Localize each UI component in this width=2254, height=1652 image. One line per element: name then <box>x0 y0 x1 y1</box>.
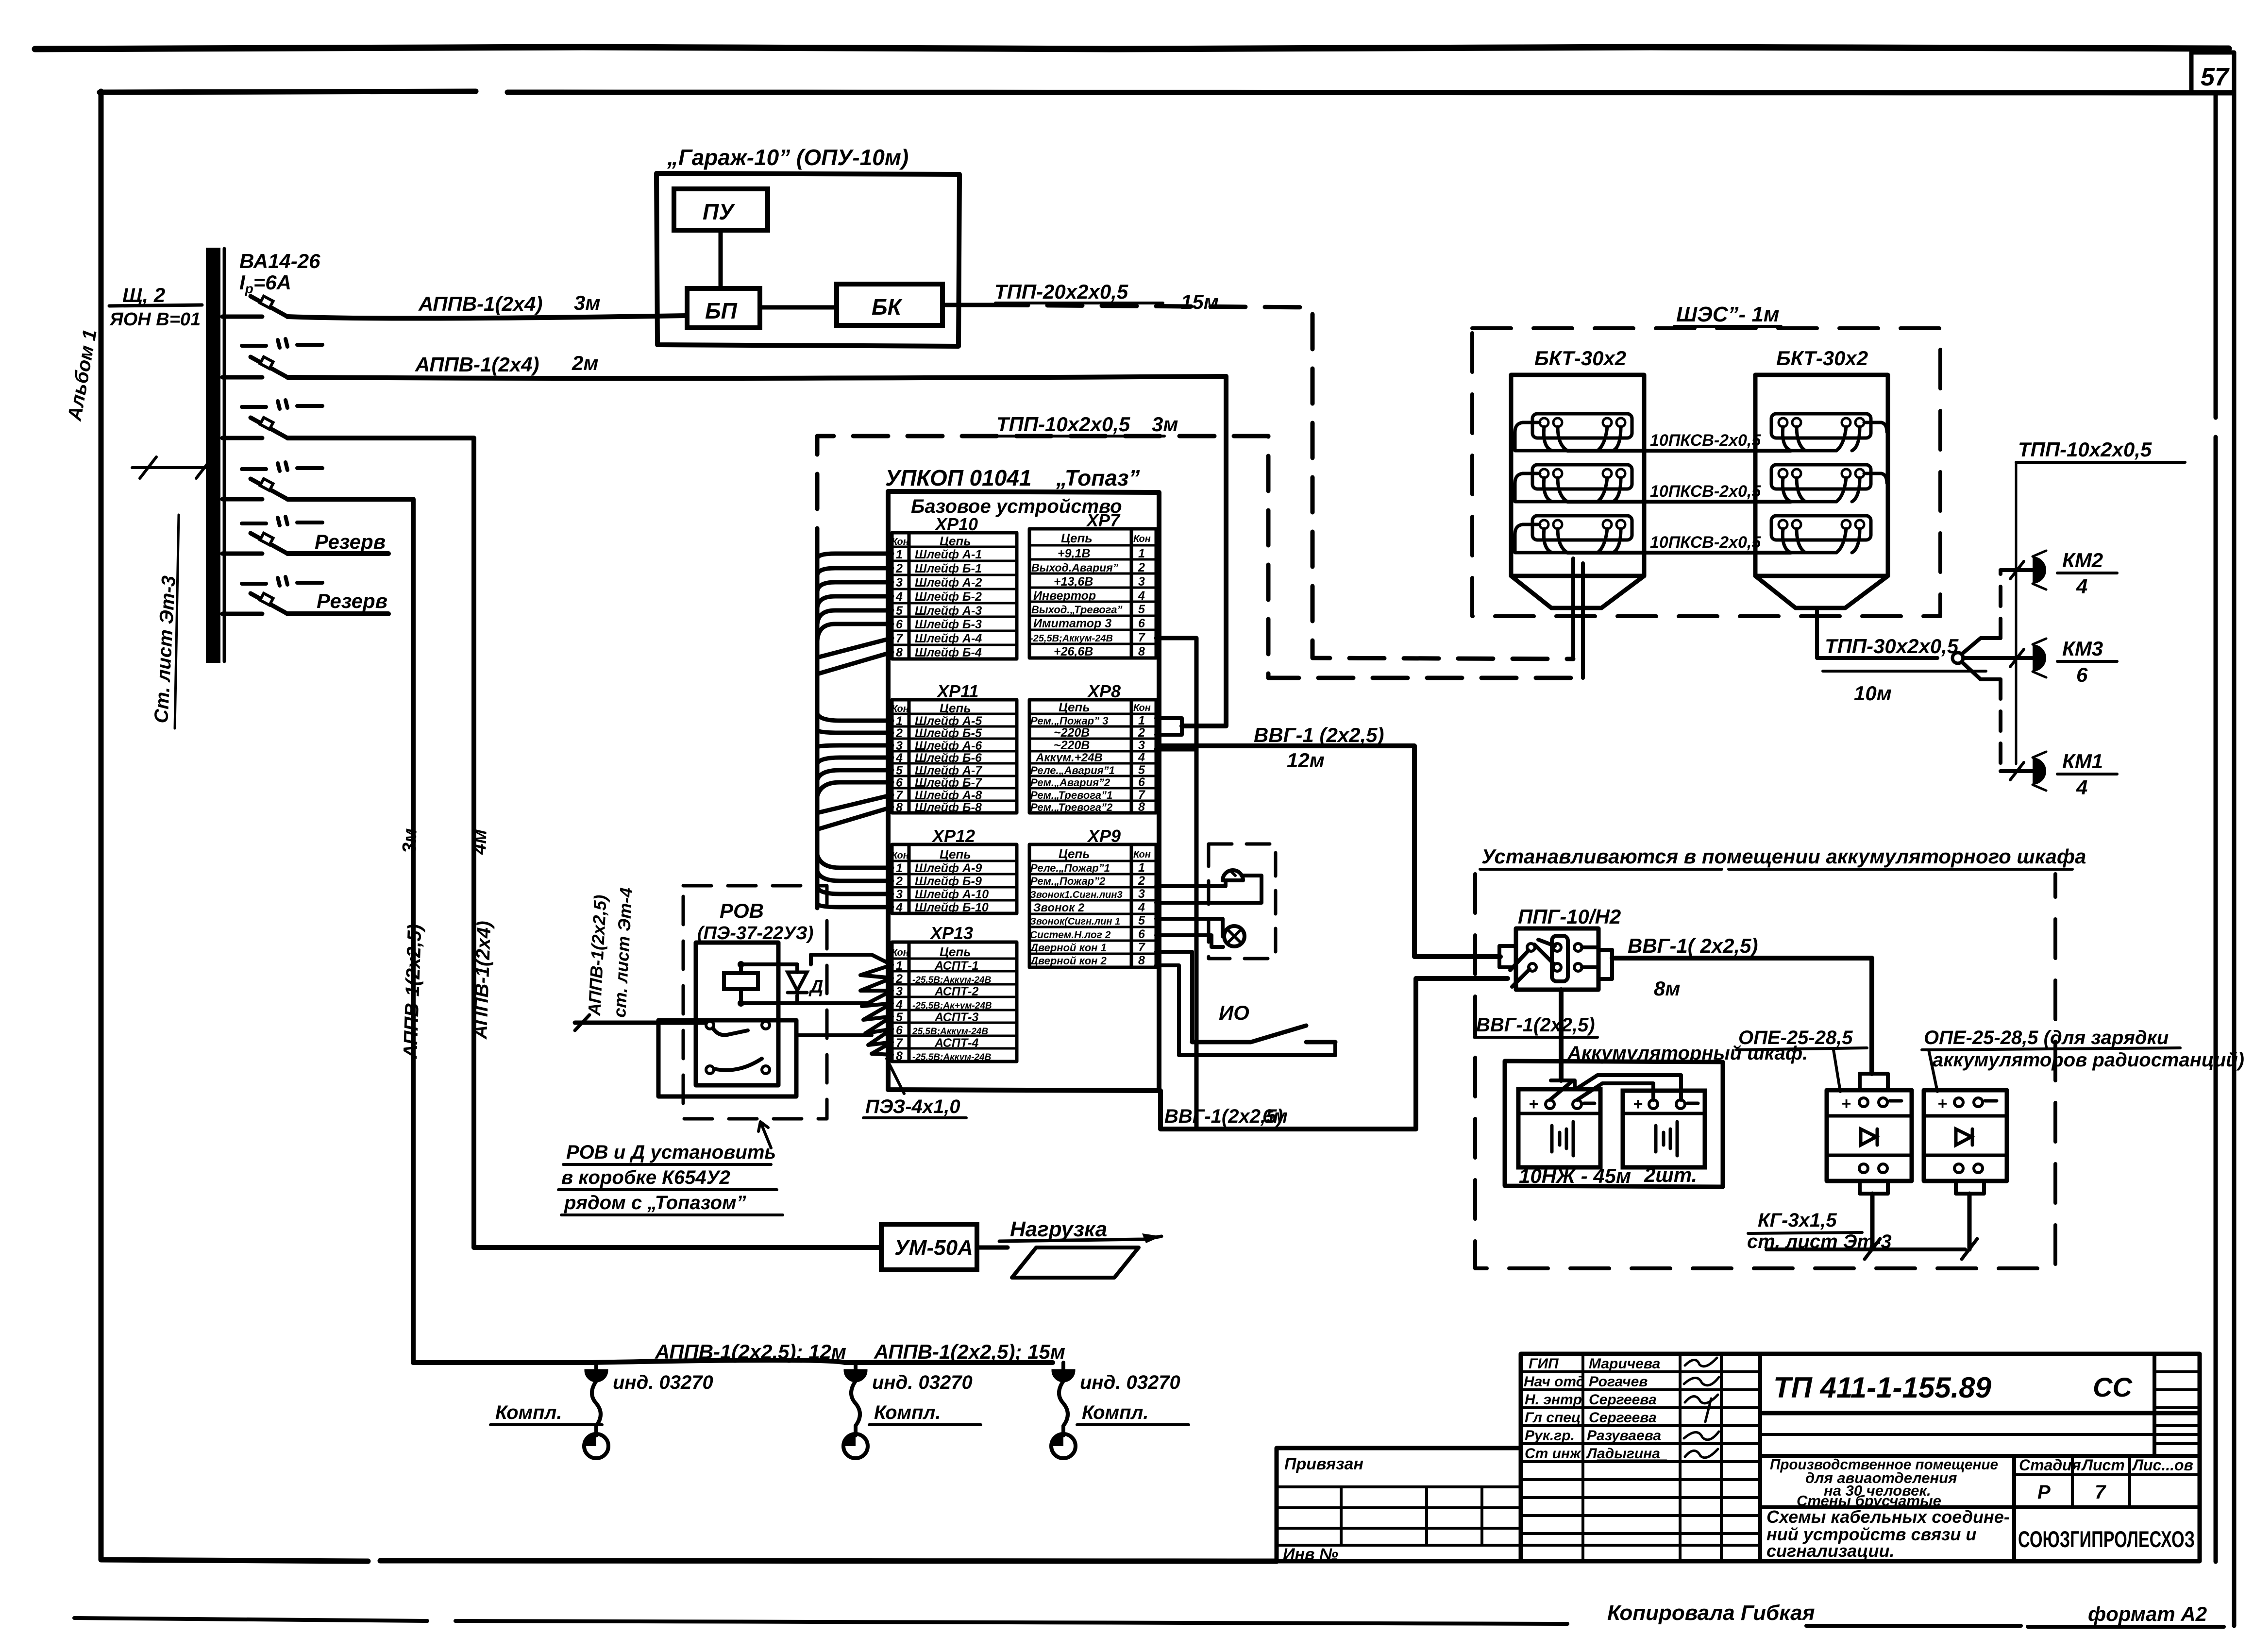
loop wire fan into ХР12 <box>817 855 892 907</box>
svg-text:Шлейф А-1: Шлейф А-1 <box>915 548 982 561</box>
organization cell СОЮЗГИПРОЛЕСХОЗ <box>2018 1526 2195 1552</box>
busbar Щ2 <box>206 248 224 663</box>
busbar label Щ,2 / ЯОН В=01 <box>109 284 202 330</box>
svg-text:ВВГ-1(2х2,5): ВВГ-1(2х2,5) <box>1476 1014 1595 1036</box>
svg-text:РОВ: РОВ <box>720 899 764 922</box>
breaker switch branch 5 (Резерв) <box>222 530 388 554</box>
svg-text:Гл спец: Гл спец <box>1525 1410 1581 1426</box>
svg-text:Рогачев: Рогачев <box>1589 1374 1648 1390</box>
loop wire fan into ХР10 <box>817 554 892 908</box>
svg-text:КМ3: КМ3 <box>2062 637 2103 660</box>
svg-text:25,5В;Аккум-24В: 25,5В;Аккум-24В <box>912 1027 988 1037</box>
door contact ИО <box>1192 1001 1335 1042</box>
wires ХР9 pins 7-8 to ИО <box>1156 952 1335 1055</box>
svg-text:Кон: Кон <box>892 537 909 547</box>
svg-text:6: 6 <box>1138 927 1145 941</box>
svg-text:АСПТ-4: АСПТ-4 <box>934 1036 978 1050</box>
svg-text:4: 4 <box>895 590 903 604</box>
connector ХР13 <box>892 923 1017 1063</box>
signature row Рук.гр. Разуваева <box>1525 1428 1719 1444</box>
branch to КМ3 <box>1963 649 2033 667</box>
rectifier ОПЕ-25-28,5 #2 <box>1924 1090 2007 1249</box>
svg-text:6: 6 <box>2076 663 2088 686</box>
svg-text:3м: 3м <box>1152 413 1178 436</box>
cable ВВГ-1(2х2,5) 12м to ППГ <box>1161 724 1500 957</box>
terminal strip left-3 <box>1515 516 1632 553</box>
svg-text:Шлейф Б-1: Шлейф Б-1 <box>915 562 982 575</box>
battery cabinet <box>1505 1061 1723 1187</box>
svg-text:Сергеева: Сергеева <box>1589 1410 1657 1426</box>
svg-text:Шлейф А-8: Шлейф А-8 <box>915 789 982 802</box>
breaker switch branch 4 <box>222 479 287 499</box>
svg-text:Д: Д <box>808 977 823 997</box>
svg-text:Шлейф А-4: Шлейф А-4 <box>915 632 982 645</box>
svg-text:-25,5В;Аккум-24В: -25,5В;Аккум-24В <box>912 975 992 985</box>
svg-text:Шлейф Б-4: Шлейф Б-4 <box>915 646 982 659</box>
svg-text:10ПКСВ-2х0,5: 10ПКСВ-2х0,5 <box>1650 482 1761 501</box>
wire ХР7 pin7 -25,5В drop <box>1156 638 1196 1129</box>
svg-text:15м: 15м <box>1181 290 1219 313</box>
svg-text:Выход.„Тревога”: Выход.„Тревога” <box>1031 604 1122 616</box>
svg-text:7: 7 <box>2095 1482 2106 1503</box>
svg-text:ТПП-30х2х0,5: ТПП-30х2х0,5 <box>1825 635 1959 657</box>
svg-text:ТПП-10х2х0,5: ТПП-10х2х0,5 <box>996 413 1130 436</box>
svg-text:3: 3 <box>896 739 903 753</box>
svg-text:сигнализации.: сигнализации. <box>1766 1541 1894 1561</box>
svg-text:Цепь: Цепь <box>940 847 971 861</box>
wires ХР9 pins 3-6 to signal devices <box>1156 876 1262 947</box>
svg-text:1: 1 <box>1138 714 1145 727</box>
svg-text:Рем.„Пожар”2: Рем.„Пожар”2 <box>1030 875 1106 887</box>
svg-text:+26,6В: +26,6В <box>1054 645 1093 658</box>
wire right funnel to ТПП-30 <box>1817 608 1937 658</box>
svg-text:АСПТ-3: АСПТ-3 <box>934 1011 978 1024</box>
relay coil K1 <box>724 964 758 1003</box>
svg-text:формат А2: формат А2 <box>2088 1602 2207 1625</box>
cable ВВГ-1(2х2,5) ППГ to battery <box>1474 990 1598 1080</box>
cable ТПП-20х2х0,5 15м (dashed) from БК <box>942 280 1573 659</box>
svg-text:Щ, 2: Щ, 2 <box>122 284 165 306</box>
rectifier ОПЕ-25-28,5 #1 <box>1827 1074 1912 1249</box>
svg-text:Реле.„Авария”1: Реле.„Авария”1 <box>1030 764 1115 776</box>
svg-text:3: 3 <box>1138 575 1145 589</box>
svg-text:8: 8 <box>896 646 903 659</box>
svg-text:1: 1 <box>896 959 903 973</box>
svg-text:рядом с „Топазом”: рядом с „Топазом” <box>564 1192 746 1214</box>
svg-text:Цепь: Цепь <box>940 534 971 548</box>
dimension leader to busbar (см. лист Эт-3) <box>132 457 213 478</box>
speaker КМ1 <box>2033 750 2117 799</box>
svg-text:3м: 3м <box>574 291 600 314</box>
title block outline <box>1277 1354 2200 1561</box>
cable ВВГ-1(2х2,5) 6м to ППГ <box>1161 978 1508 1129</box>
svg-text:БКТ-30х2: БКТ-30х2 <box>1776 347 1868 370</box>
block БК <box>837 284 942 325</box>
wire 220V riser to ХР8 pins 2-3 <box>1182 376 1226 726</box>
svg-text:Рук.гр.: Рук.гр. <box>1525 1428 1575 1444</box>
svg-text:АСПТ-2: АСПТ-2 <box>934 985 978 998</box>
svg-text:Шлейф А-6: Шлейф А-6 <box>915 739 982 753</box>
svg-text:6: 6 <box>1138 617 1145 630</box>
svg-text:10ПКСВ-2х0,5: 10ПКСВ-2х0,5 <box>1650 533 1761 552</box>
enclosure ШЭС dashed <box>1472 328 1940 616</box>
wire ПУ-БП <box>719 230 723 288</box>
svg-text:ИО: ИО <box>1219 1001 1249 1024</box>
svg-text:5: 5 <box>896 604 903 618</box>
empty revision strip <box>1760 1433 2200 1436</box>
jumper cable 10ПКСВ-2х0,5 row2 <box>1567 482 1791 502</box>
object name cell <box>1760 1456 2200 1561</box>
svg-text:2: 2 <box>895 972 903 986</box>
relay contact lower <box>706 1059 770 1074</box>
breaker switch branch 3 <box>222 418 287 438</box>
svg-text:ТПП-10х2х0,5: ТПП-10х2х0,5 <box>2018 438 2152 461</box>
svg-text:5: 5 <box>1138 603 1145 616</box>
svg-text:10м: 10м <box>1854 682 1892 705</box>
cable label ТПП-10х2х0,5 (speaker riser) <box>2016 438 2185 462</box>
svg-text:Кон: Кон <box>1133 534 1151 544</box>
signal box (bell+lamp) dashed <box>1209 844 1276 959</box>
label ОПЕ-25-28,5 (для зарядки аккумуляторов радиостанций) <box>1922 1027 2244 1092</box>
svg-text:Кон: Кон <box>892 947 909 958</box>
drawing frame left <box>101 91 1277 1561</box>
svg-text:Шлейф Б-2: Шлейф Б-2 <box>915 590 982 604</box>
svg-text:Шлейф Б-8: Шлейф Б-8 <box>915 801 982 814</box>
svg-text:7: 7 <box>896 1036 903 1050</box>
svg-text:4: 4 <box>895 998 903 1011</box>
svg-text:4: 4 <box>2076 776 2087 799</box>
svg-text:инд. 03270: инд. 03270 <box>1080 1372 1180 1393</box>
svg-text:7: 7 <box>1138 631 1145 644</box>
svg-text:Рем.„Тревога”1: Рем.„Тревога”1 <box>1030 789 1112 801</box>
svg-text:Цепь: Цепь <box>1061 531 1093 545</box>
branch to КМ2 <box>1962 561 2033 654</box>
svg-text:4: 4 <box>1138 751 1145 764</box>
enclosure РОВ dashed <box>683 886 827 1119</box>
svg-text:КГ-3х1,5: КГ-3х1,5 <box>1758 1210 1837 1231</box>
luminaire 3 инд.03270 <box>1051 1363 1189 1458</box>
svg-text:1: 1 <box>1138 861 1145 875</box>
svg-text:6м: 6м <box>1262 1106 1288 1127</box>
jumper cable 10ПКСВ-2х0,5 row1 <box>1567 431 1791 451</box>
svg-text:8: 8 <box>1138 954 1145 967</box>
wire ХР8 pin4 Аккум+24В stub <box>1156 747 1196 752</box>
svg-text:8: 8 <box>896 801 903 814</box>
breaker switch QF1 branch 1 <box>222 296 287 317</box>
label 10НЖ-45м 2шт <box>1519 1163 1697 1187</box>
svg-text:Разуваева: Разуваева <box>1587 1428 1661 1444</box>
connector ХР11 <box>892 681 1017 814</box>
speaker КМ3 <box>2033 637 2117 686</box>
svg-text:Сергеева: Сергеева <box>1589 1392 1657 1408</box>
svg-text:8м: 8м <box>1654 977 1680 1000</box>
bell HA1 <box>1223 870 1243 880</box>
svg-text:Аккум.+24В: Аккум.+24В <box>1035 751 1103 764</box>
svg-text:инд. 03270: инд. 03270 <box>613 1372 713 1393</box>
breaker switch branch 6 (Резерв) <box>222 590 388 614</box>
wire branch1 АППВ-1(2х4) 3м to БП <box>287 291 687 319</box>
svg-text:2шт.: 2шт. <box>1644 1163 1697 1186</box>
sheet top border line <box>35 47 2229 49</box>
luminaire 1 инд.03270 <box>490 1363 713 1458</box>
drawing frame top <box>100 91 2234 93</box>
svg-text:Реле.„Пожар”1: Реле.„Пожар”1 <box>1030 862 1110 874</box>
svg-text:Привязан: Привязан <box>1284 1455 1363 1473</box>
svg-text:ШЭС”- 1м: ШЭС”- 1м <box>1676 303 1779 326</box>
battery room enclosure dashed <box>1475 874 2055 1268</box>
svg-text:3: 3 <box>1138 887 1145 901</box>
relay contact upper <box>706 1021 770 1035</box>
svg-text:Резерв: Резерв <box>315 530 386 553</box>
svg-text:1: 1 <box>896 861 903 875</box>
svg-text:Резерв: Резерв <box>317 590 387 612</box>
svg-text:Шлейф А-3: Шлейф А-3 <box>915 604 982 618</box>
svg-text:7: 7 <box>896 789 903 802</box>
signature row ГИП Маричева <box>1529 1356 1717 1372</box>
svg-text:Шлейф Б-5: Шлейф Б-5 <box>915 726 982 740</box>
terminal strip right-1 <box>1771 414 1887 451</box>
ditto mark branch 4 <box>242 462 322 471</box>
svg-text:АППВ-1(2х4): АППВ-1(2х4) <box>418 292 542 315</box>
svg-text:Шлейф А-10: Шлейф А-10 <box>915 888 989 901</box>
svg-text:Систем.Н.лог 2: Систем.Н.лог 2 <box>1030 929 1111 941</box>
label БКТ-30х2 left <box>1534 347 1626 370</box>
svg-text:3: 3 <box>896 576 903 590</box>
label Аккумуляторный шкаф <box>1567 1043 1808 1064</box>
wire bundle zigzag to ХР13 pins <box>860 955 892 1055</box>
svg-text:Шлейф Б-9: Шлейф Б-9 <box>915 875 982 888</box>
svg-text:Шлейф А-9: Шлейф А-9 <box>915 861 982 875</box>
svg-text:ВА14-26: ВА14-26 <box>239 250 320 272</box>
svg-text:7: 7 <box>896 632 903 645</box>
svg-text:Кон: Кон <box>1133 849 1151 860</box>
junction node <box>1952 653 1963 663</box>
terminal bracket ХР8 pins 2-3 <box>1156 718 1182 735</box>
loop wire fan into ХР11 <box>817 714 892 829</box>
svg-text:8: 8 <box>1138 645 1145 658</box>
svg-text:2: 2 <box>1138 726 1145 740</box>
svg-text:АСПТ-1: АСПТ-1 <box>934 959 978 973</box>
battery GB1 10НЖ-45м <box>1518 1089 1600 1167</box>
document number cell ТП 411-1-155.89 СС <box>1760 1354 2200 1456</box>
connector ХР9 <box>1029 826 1156 967</box>
cable ВВГ-1(2х2,5) 8м from ППГ to ОПЕ <box>1612 934 1872 1074</box>
signature row Н. энтр Сергеева <box>1525 1392 1718 1408</box>
svg-text:2м: 2м <box>572 352 598 374</box>
svg-text:АППВ-1(2х2,5); 15м: АППВ-1(2х2,5); 15м <box>874 1340 1065 1363</box>
sheet number box 57 <box>2191 52 2234 92</box>
svg-text:5: 5 <box>1138 914 1145 927</box>
svg-text:ЯОН В=01: ЯОН В=01 <box>109 309 201 330</box>
svg-text:АППВ-1(2х2,5); 12м: АППВ-1(2х2,5); 12м <box>655 1340 846 1363</box>
svg-text:57: 57 <box>2201 63 2230 91</box>
block ПУ <box>674 189 768 230</box>
wire to УМ-50А <box>474 1245 881 1250</box>
svg-text:ВВГ-1 (2х2,5): ВВГ-1 (2х2,5) <box>1254 724 1384 746</box>
svg-text:Цепь: Цепь <box>1059 700 1090 714</box>
svg-text:БК: БК <box>872 294 903 320</box>
svg-text:СОЮЗГИПРОЛЕСХОЗ: СОЮЗГИПРОЛЕСХОЗ <box>2018 1526 2195 1552</box>
svg-text:инд. 03270: инд. 03270 <box>872 1372 973 1393</box>
svg-text:Схемы кабельных соедине-: Схемы кабельных соедине- <box>1766 1507 2010 1527</box>
battery interconnect wires <box>1550 1075 1681 1100</box>
terminal strip right-2 <box>1771 465 1887 502</box>
svg-text:Компл.: Компл. <box>1082 1402 1149 1423</box>
svg-text:КМ1: КМ1 <box>2062 750 2103 773</box>
svg-text:Лист: Лист <box>2081 1456 2125 1474</box>
svg-text:Звонок 2: Звонок 2 <box>1033 901 1085 914</box>
svg-text:Рем.„Пожар” 3: Рем.„Пожар” 3 <box>1030 715 1108 727</box>
wire feed АППВ-1(2х2,5) into РОВ <box>575 887 706 1030</box>
svg-text:2: 2 <box>895 875 903 888</box>
copied-by note Копировала <box>1607 1601 1815 1625</box>
cable label ПЭЗ-4х1,0 <box>863 1059 966 1118</box>
svg-text:3: 3 <box>1138 739 1145 752</box>
ditto mark branch 2 <box>242 339 322 348</box>
svg-text:1: 1 <box>1138 547 1145 560</box>
svg-text:Цепь: Цепь <box>1059 846 1090 861</box>
svg-text:Р: Р <box>2037 1482 2051 1503</box>
svg-text:Компл.: Компл. <box>495 1402 562 1423</box>
svg-text:+9,1В: +9,1В <box>1058 547 1090 560</box>
svg-text:ХР13: ХР13 <box>929 923 973 943</box>
svg-text:Шлейф А-7: Шлейф А-7 <box>915 764 982 777</box>
svg-text:5: 5 <box>1138 763 1145 777</box>
heading Устанавливаются в помещении аккумуляторного шкафа <box>1480 845 2086 869</box>
svg-text:+: + <box>1633 1095 1643 1113</box>
svg-text:СС: СС <box>2093 1372 2133 1402</box>
svg-text:„Гараж-10” (ОПУ-10м): „Гараж-10” (ОПУ-10м) <box>667 145 908 170</box>
stage/sheet header cells <box>2014 1456 2200 1507</box>
ditto mark branch 3 <box>242 400 322 409</box>
svg-text:-25,5В;Аккум-24В: -25,5В;Аккум-24В <box>1030 633 1113 644</box>
load symbol parallelogram <box>1012 1247 1139 1278</box>
speaker КМ2 <box>2033 549 2117 598</box>
svg-text:Стадия: Стадия <box>2019 1456 2081 1474</box>
svg-text:8: 8 <box>896 1049 903 1063</box>
svg-text:Инвертор: Инвертор <box>1033 589 1096 603</box>
svg-text:Дверной кон 2: Дверной кон 2 <box>1029 955 1107 967</box>
svg-text:6: 6 <box>896 1024 903 1037</box>
svg-text:3: 3 <box>896 985 903 998</box>
svg-text:+: + <box>1529 1095 1538 1113</box>
label ППГ-10/Н2 <box>1518 905 1621 928</box>
branch to КМ1 <box>1962 662 2033 780</box>
svg-text:3: 3 <box>896 888 903 901</box>
svg-text:Рем.„Авария”2: Рем.„Авария”2 <box>1030 776 1110 789</box>
svg-text:4: 4 <box>2076 575 2087 598</box>
svg-text:2: 2 <box>1138 561 1145 574</box>
svg-text:Шлейф А-5: Шлейф А-5 <box>915 714 982 728</box>
label ОПЕ-25-28,5 <box>1736 1027 1867 1092</box>
svg-text:4: 4 <box>895 751 903 765</box>
svg-text:5: 5 <box>896 764 903 777</box>
svg-text:КМ2: КМ2 <box>2062 549 2103 572</box>
svg-text:Шлейф Б-10: Шлейф Б-10 <box>915 901 989 914</box>
cable label АППВ-1(2х2,5);12м <box>655 1340 846 1363</box>
svg-text:ППГ-10/Н2: ППГ-10/Н2 <box>1518 905 1621 928</box>
svg-text:Дверной кон 1: Дверной кон 1 <box>1029 942 1107 954</box>
ditto mark branch 6 <box>242 577 322 586</box>
svg-text:1: 1 <box>896 548 903 561</box>
format note формат А2 <box>2088 1602 2207 1625</box>
lamp HL1 <box>1224 926 1245 946</box>
svg-text:РОВ и Д установить: РОВ и Д установить <box>566 1142 776 1163</box>
battery GB2 10НЖ-45м <box>1623 1091 1705 1167</box>
svg-text:5: 5 <box>896 1011 903 1024</box>
svg-text:Компл.: Компл. <box>874 1402 941 1423</box>
wires left funnel to incoming cables <box>1573 558 1583 678</box>
svg-text:АППВ-1(2х4): АППВ-1(2х4) <box>415 353 539 376</box>
contact unit box <box>658 1020 796 1096</box>
block БП <box>687 288 760 328</box>
svg-text:10НЖ - 45м: 10НЖ - 45м <box>1519 1164 1631 1187</box>
svg-text:Инв №: Инв № <box>1283 1545 1338 1564</box>
label Ст.лист Эт-3 (vertical) <box>151 515 180 728</box>
cable label ТПП-30х2х0,5 / 10м <box>1823 635 1986 705</box>
svg-text:Шлейф А-2: Шлейф А-2 <box>915 576 982 590</box>
svg-text:Маричева: Маричева <box>1589 1356 1660 1372</box>
svg-text:4: 4 <box>895 901 903 914</box>
svg-text:12м: 12м <box>1287 749 1325 772</box>
svg-text:аккумуляторов радиостанций): аккумуляторов радиостанций) <box>1933 1049 2244 1071</box>
svg-text:Звонок1.Сигн.лин3: Звонок1.Сигн.лин3 <box>1030 890 1123 900</box>
title УПКОП 01041 „Топаз" <box>885 465 1140 490</box>
note РОВ и Д установить в коробке К654У2 рядом с „Топазом" <box>558 1122 783 1215</box>
svg-text:10ПКСВ-2х0,5: 10ПКСВ-2х0,5 <box>1650 431 1761 450</box>
svg-text:4м: 4м <box>469 829 491 855</box>
svg-text:Цепь: Цепь <box>940 701 971 715</box>
terminal box БКТ left <box>1511 375 1644 608</box>
svg-text:ТПП-20х2х0,5: ТПП-20х2х0,5 <box>994 280 1128 303</box>
svg-text:Устанавливаются в помещении ак: Устанавливаются в помещении аккумуляторн… <box>1481 845 2086 868</box>
svg-text:Копировала Гибкая: Копировала Гибкая <box>1607 1601 1815 1625</box>
svg-text:7: 7 <box>1138 788 1145 802</box>
signature table grid <box>1521 1354 2200 1561</box>
svg-text:3м: 3м <box>399 828 421 854</box>
cable label АППВ-1(2х2,5);15м <box>874 1340 1065 1363</box>
svg-text:6: 6 <box>896 776 903 790</box>
changeover switch ППГ-10/Н2 <box>1499 928 1612 990</box>
svg-text:Кон: Кон <box>892 850 909 861</box>
sheet trim line bottom <box>74 1618 2224 1627</box>
ditto mark branch 5 <box>242 517 322 525</box>
svg-text:Шлейф Б-6: Шлейф Б-6 <box>915 751 982 765</box>
cable ТПП-10х2х0,5 3м (dashed) from Топаз to ШЭС <box>817 413 1583 678</box>
svg-text:+: + <box>1937 1095 1947 1113</box>
signature row Гл спец Сергеева <box>1525 1399 1711 1426</box>
connector ХР12 <box>892 826 1017 914</box>
svg-text:Шлейф Б-3: Шлейф Б-3 <box>915 618 982 631</box>
sheet title cell <box>1766 1507 2010 1561</box>
svg-text:Нач отд: Нач отд <box>1524 1374 1585 1390</box>
luminaire 2 инд.03270 <box>843 1363 981 1458</box>
amplifier УМ-50А <box>881 1224 977 1270</box>
label ШЭС''-1м <box>1674 303 1781 326</box>
enclosure Базовое устройство <box>888 491 1159 1091</box>
svg-text:ГИП: ГИП <box>1529 1356 1559 1372</box>
label РОВ (ПЭ-37-22УЗ) <box>697 899 813 944</box>
svg-text:АППВ-1(2х4): АППВ-1(2х4) <box>470 921 495 1040</box>
svg-text:8: 8 <box>1138 800 1145 814</box>
load arrow Нагрузка <box>977 1217 1161 1247</box>
terminal strip left-1 <box>1515 414 1632 451</box>
svg-text:Рем.„Тревога”2: Рем.„Тревога”2 <box>1030 801 1113 813</box>
svg-text:ОПЕ-25-28,5 (для зарядки: ОПЕ-25-28,5 (для зарядки <box>1924 1027 2169 1048</box>
terminal strip right-3 <box>1771 516 1871 553</box>
svg-text:ОПЕ-25-28,5: ОПЕ-25-28,5 <box>1738 1027 1853 1048</box>
svg-text:Ст инж: Ст инж <box>1525 1446 1581 1462</box>
